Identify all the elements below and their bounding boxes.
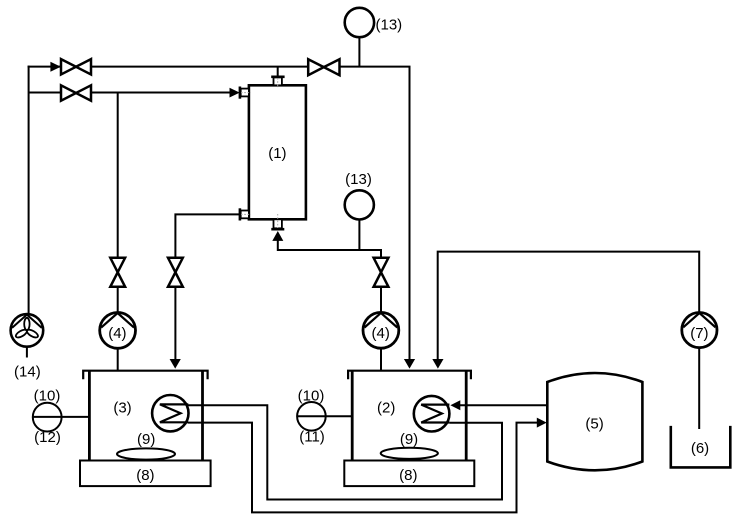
wire: valve V3 to pump 4b (380, 287, 382, 313)
port left-top of column (240, 87, 251, 99)
arrow into column left port (230, 88, 240, 98)
svg-text:(6): (6) (691, 440, 709, 457)
gauge 13a (345, 8, 402, 37)
svg-text:(13): (13) (376, 16, 403, 33)
svg-text:(8): (8) (399, 467, 417, 484)
wire: gauge 13a stem (358, 37, 360, 66)
valve top right on line 1 (308, 59, 339, 75)
wire: vessel 5 to HX2 inlet (459, 404, 547, 406)
wire: line 2 to column left port (29, 92, 231, 94)
wire: stub to column top port (277, 67, 279, 77)
wire: branch down to pump 4a (117, 93, 119, 258)
pump 4b (363, 312, 399, 348)
svg-text:(4): (4) (372, 325, 390, 342)
heater plate 9 of tank 2 (381, 431, 438, 459)
wire: gauge 13b stem (358, 220, 360, 250)
tank 3 walls (88, 371, 91, 461)
wire: HX3 outlet loop to vessel 5 (188, 423, 537, 513)
heater plate 9 of tank 3 (117, 431, 175, 460)
svg-text:(13): (13) (345, 171, 372, 188)
svg-text:(7): (7) (690, 325, 708, 342)
svg-text:(2): (2) (377, 400, 395, 417)
svg-text:(12): (12) (34, 429, 61, 446)
gauge 13b (345, 171, 374, 219)
tank 2 lid (348, 371, 471, 380)
arrow right into vessel 5 (537, 418, 547, 428)
heater block 8 of tank 3 (80, 461, 211, 487)
wire: pump 4b to tank 2 (380, 348, 382, 370)
arrow left into HX2 (450, 400, 460, 410)
container 6 (671, 426, 731, 468)
valve V1 above pump 4a (110, 258, 125, 287)
svg-text:(9): (9) (137, 431, 155, 448)
wire: HX2 outlet loop to HX3 inlet (188, 405, 502, 499)
valve on line 2 (61, 85, 91, 100)
level sensor 10/11 (297, 388, 326, 446)
wire: pump 7 header to tank 2 (438, 252, 700, 361)
heat exchanger HX3 (152, 395, 188, 431)
wire: level sensor line tank 2 (297, 415, 352, 417)
arrow down into tank 2 from header (404, 359, 415, 369)
valve V2 above tank 3 (168, 258, 183, 287)
svg-text:(10): (10) (34, 388, 61, 405)
fan 14 (11, 314, 44, 380)
heater block 8 of tank 2 (344, 461, 474, 487)
svg-text:(9): (9) (400, 431, 418, 448)
valve V3 above pump 4b (374, 258, 389, 287)
wire: column bottom-left port to valve V2 (175, 214, 239, 257)
heat exchanger HX2 (414, 396, 450, 432)
arrow into valve on line 1 (50, 62, 60, 72)
svg-text:(4): (4) (108, 325, 126, 342)
wire: fan bottom stub (26, 347, 28, 358)
arrow down into tank 2 from pump 7 line (432, 359, 443, 369)
wire: pump 7 to container 6 (698, 348, 700, 429)
wire: valve V1 to pump 4a (117, 287, 119, 313)
svg-text:(5): (5) (585, 415, 603, 432)
tank 2 walls (351, 371, 354, 461)
vessel 5 (547, 373, 642, 470)
pump 4a (100, 313, 136, 349)
svg-text:(14): (14) (14, 364, 41, 381)
wire: valve V2 to tank 3 arrow (174, 287, 176, 361)
svg-text:(1): (1) (268, 145, 286, 162)
level sensor 10/12 (33, 388, 62, 446)
column U1 (249, 85, 306, 219)
wire: top header line 1 (28, 67, 410, 361)
svg-text:(8): (8) (136, 467, 154, 484)
wire: left vertical riser (28, 66, 30, 315)
svg-text:(3): (3) (113, 400, 131, 417)
wire: column bottom port down and right (278, 241, 381, 258)
port left-bottom of column (240, 208, 251, 220)
port bottom of column (271, 214, 284, 229)
svg-text:(11): (11) (299, 429, 325, 446)
pump 7 (682, 313, 717, 348)
wire: pump 4a to tank 3 (117, 348, 119, 370)
port top of column (271, 77, 284, 88)
tank 3 lid (83, 371, 207, 380)
arrow down into tank 3 (170, 359, 181, 369)
svg-text:(10): (10) (298, 388, 325, 405)
valve top line 1 (61, 59, 91, 74)
wire: level sensor line tank 3 (33, 416, 89, 418)
arrow up into column bottom port (272, 231, 283, 241)
